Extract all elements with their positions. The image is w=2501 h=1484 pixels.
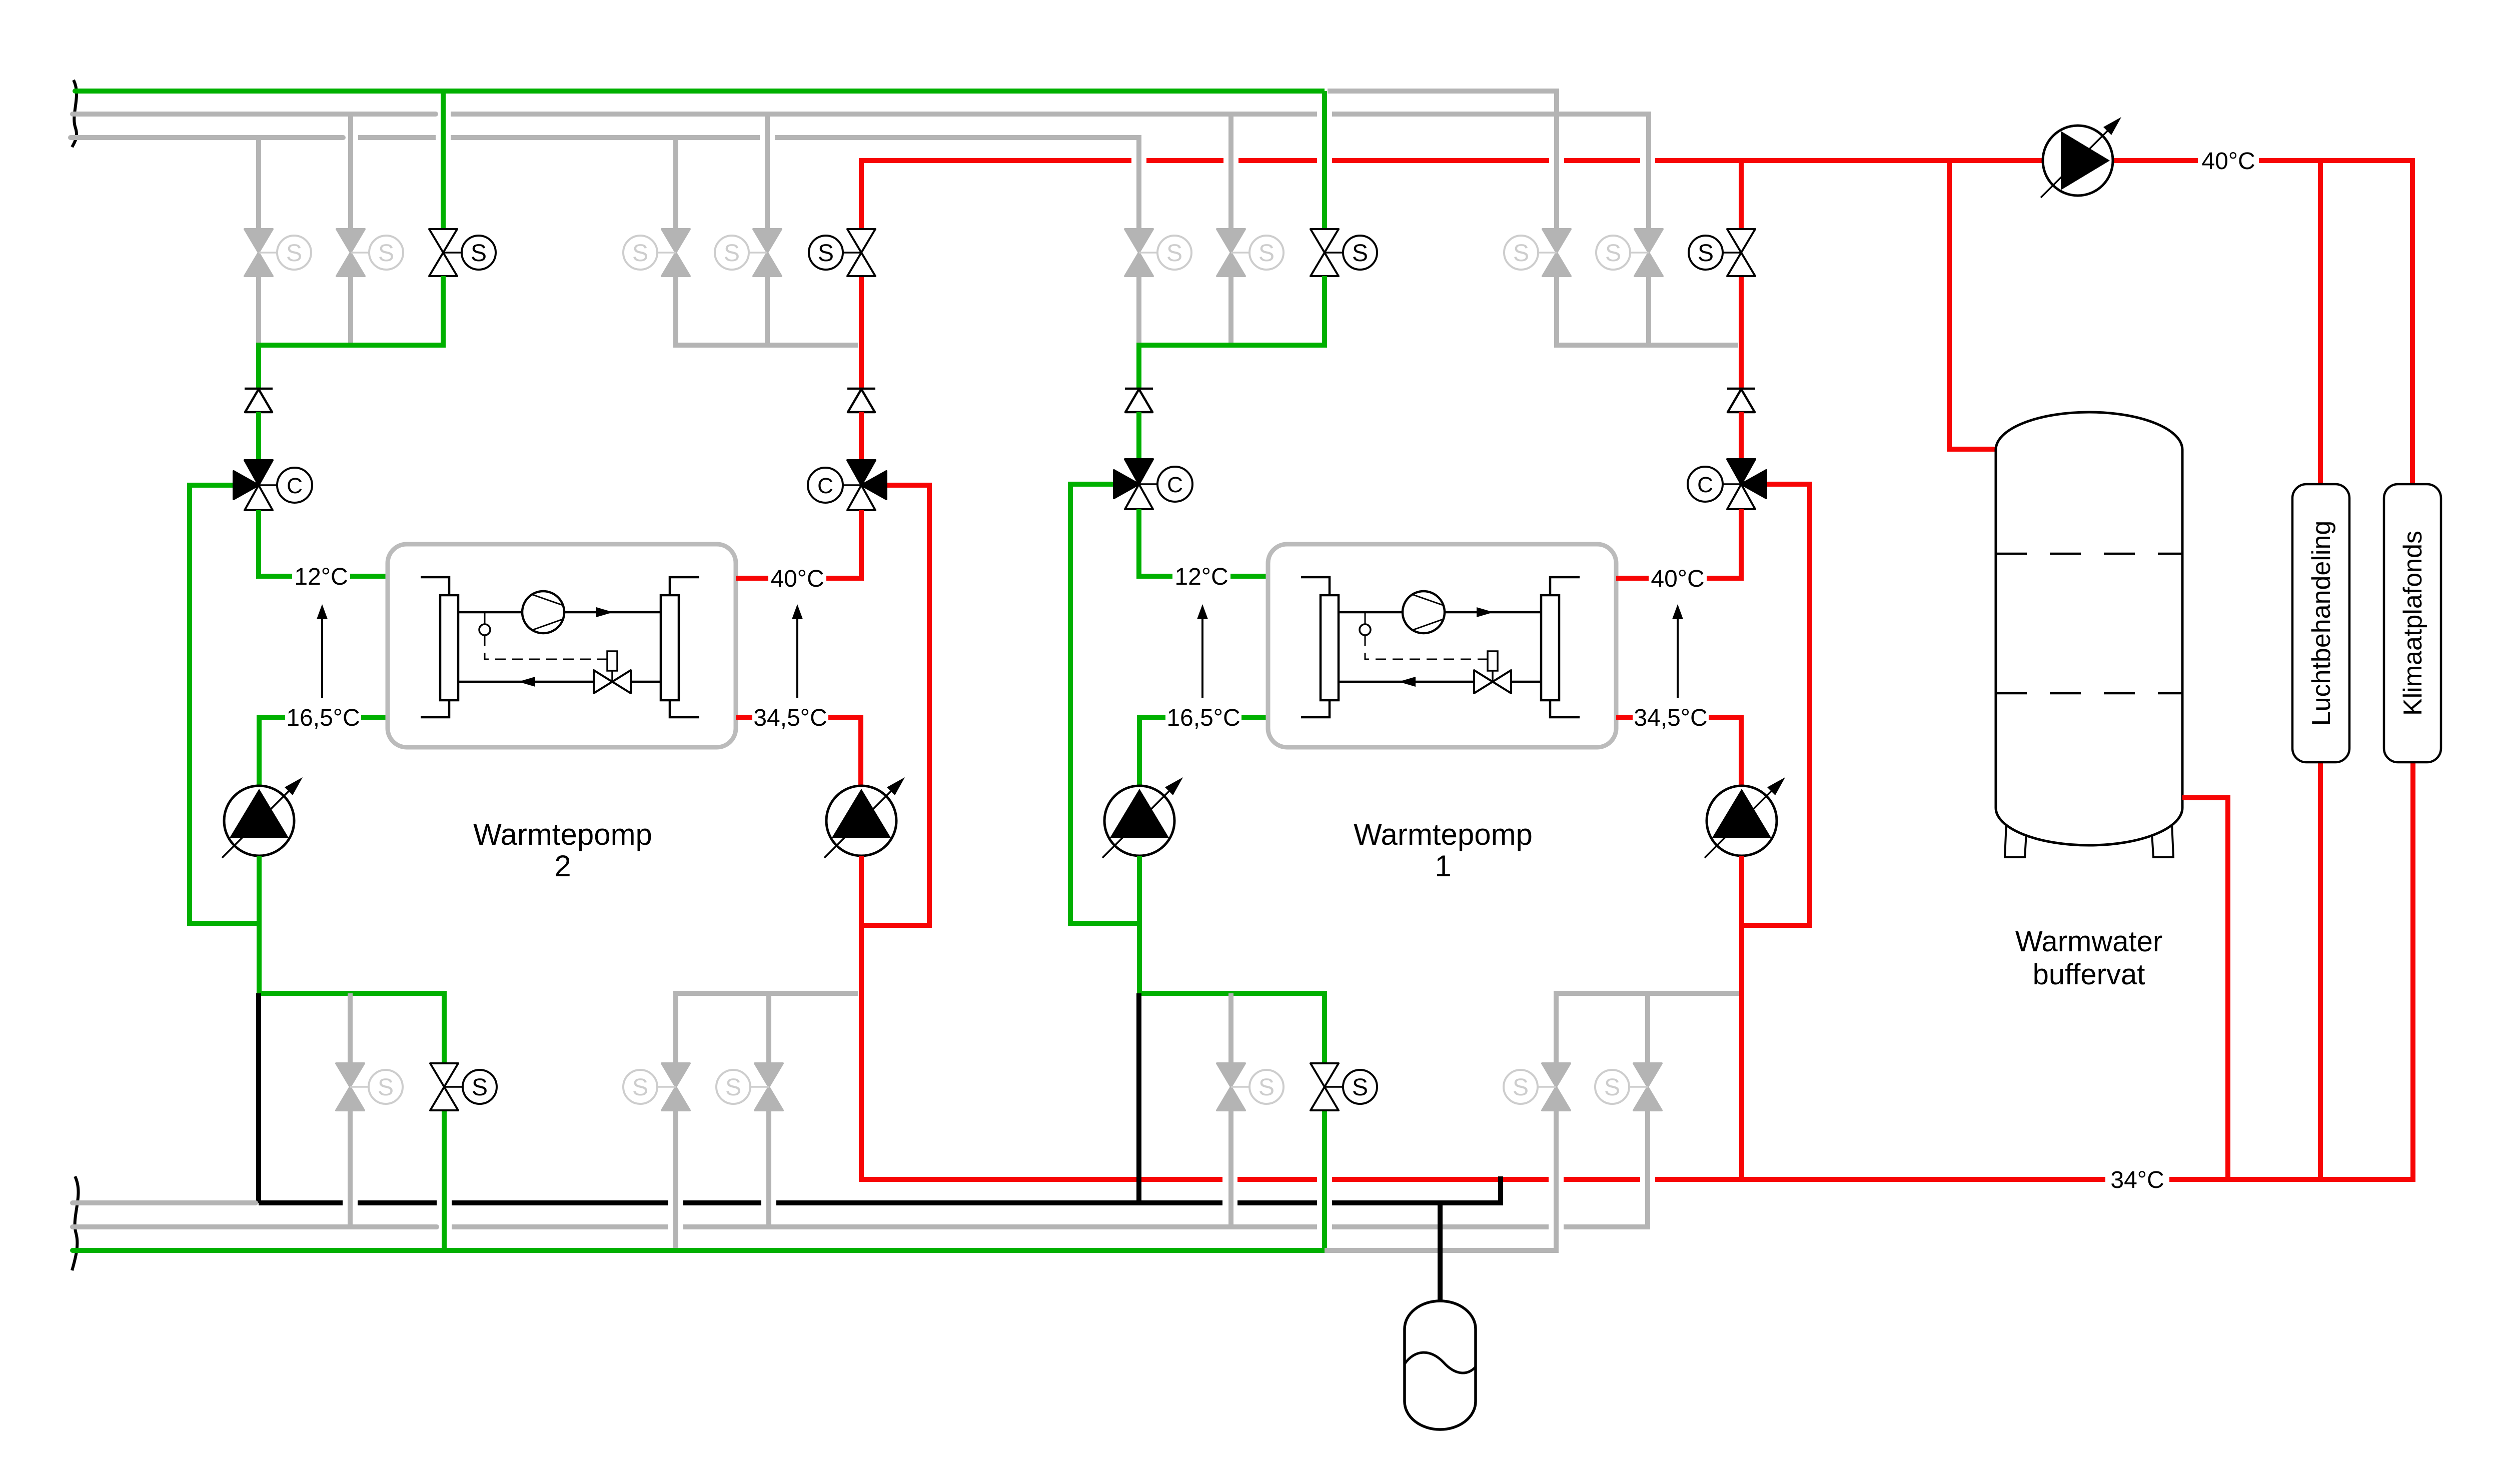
WP2 liquid line with flow arrow (458, 677, 661, 687)
svg-text:Luchtbehandeling: Luchtbehandeling (2307, 521, 2336, 726)
wire: expansion vessel connection (black) (1438, 1203, 1443, 1304)
pump WP1 condenser (variable speed) (1705, 777, 1785, 858)
svg-text:Warmtepomp: Warmtepomp (473, 818, 652, 851)
pump WP2 condenser (variable speed) (824, 777, 905, 858)
wire: bottom gray header 2 (73, 1224, 437, 1229)
svg-text:C: C (817, 474, 833, 498)
wire: WP2 condenser supply 40C (red) (826, 510, 861, 578)
svg-text:S: S (1604, 1074, 1620, 1101)
svg-text:40°C: 40°C (2201, 148, 2255, 175)
pipe break mark bottom left (72, 1176, 79, 1270)
WP2 condenser heat exchanger (661, 577, 699, 717)
pipe break mark top left (72, 80, 77, 147)
WP2 evaporator heat exchanger (421, 577, 458, 717)
wire: WP2 condenser riser (red active) (859, 276, 864, 389)
valve S WP1 bottom-right branch 2 (gray closed) (1595, 1063, 1662, 1110)
wire: WP2 condenser mixing bypass (red) (861, 485, 929, 925)
svg-text:34°C: 34°C (2110, 1167, 2164, 1193)
3-way mixing valve C WP1 condenser (1688, 459, 1766, 509)
wire: bottom return header 34C (red) (1237, 1177, 1317, 1182)
wire: WP2 condenser group connector (gray) (676, 276, 858, 345)
WP1 discharge line with flow arrow (1339, 607, 1541, 617)
wire: WP1 bottom branch 3 (green active) (1322, 1110, 1327, 1250)
arrow up WP1 right (1672, 604, 1683, 698)
WP1 expansion valve with actuator (1474, 651, 1511, 693)
wire: WP2 bottom branch 3 (green active) (442, 1110, 447, 1250)
wire: WP1 condenser riser (red active) (1739, 161, 1744, 229)
valve S WP2 evaporator branch 2 (gray closed) (337, 229, 403, 276)
WP1 evaporator heat exchanger (1301, 577, 1339, 717)
wire: bottom source return header (black) (259, 1200, 343, 1205)
svg-text:S: S (1605, 240, 1621, 267)
wire: top gray header 3 (71, 135, 343, 140)
wire: WP1 evaporator branch 3 (green active) (1322, 91, 1327, 229)
heat pump unit WP1 cabinet (1268, 544, 1616, 747)
svg-text:C: C (1167, 473, 1183, 497)
svg-text:S: S (471, 240, 487, 267)
check valve WP1 evaporator (1125, 389, 1153, 412)
wire: top source supply header continuation (gray, to WP1 condenser group branch 1) (1328, 91, 1557, 229)
wire: WP1 condenser mixing bypass (red) (1742, 484, 1810, 925)
svg-text:buffervat: buffervat (2033, 958, 2145, 991)
svg-text:S: S (1352, 1074, 1368, 1101)
svg-text:C: C (1697, 473, 1713, 497)
svg-text:1: 1 (1435, 849, 1451, 883)
wire: WP2 condenser branch 1 (gray) (673, 138, 678, 229)
wire: WP1 condenser branch 2 lower (gray) (1646, 276, 1651, 345)
arrow up WP1 left (1197, 604, 1208, 698)
svg-text:S: S (725, 1074, 741, 1101)
wire: bottom source supply header (green active part) (73, 1248, 1325, 1253)
wire: WP1 bottom-right branch 2 upper (gray) (1645, 993, 1650, 1063)
component box Luchtbehandeling (2292, 484, 2349, 762)
wire: WP2 evaporator branch 3 (green active) (441, 91, 446, 229)
WP1 sensor bulb and control line (1360, 612, 1488, 659)
wire: WP2 condenser pump outlet to bottom header (red) (861, 856, 1222, 1179)
svg-text:12°C: 12°C (1174, 564, 1228, 590)
wire: WP2 evaporator branch 1 (gray) (256, 138, 261, 229)
svg-text:Klimaatplafonds: Klimaatplafonds (2398, 531, 2427, 716)
wire: hot supply header 40C (red) (861, 161, 1131, 229)
valve S WP1 evaporator branch 1 (gray closed) (1125, 229, 1191, 276)
wire: bottom header 3 continuation (gray) (1325, 1110, 1556, 1250)
svg-text:34,5°C: 34,5°C (753, 705, 827, 731)
svg-text:S: S (472, 1074, 488, 1101)
3-way mixing valve C WP2 condenser (808, 460, 886, 510)
wire: bottom header 1 left part (gray) (73, 1200, 256, 1205)
WP2 compressor (522, 591, 564, 633)
wire: WP1 check valve to mixing valve (green) (1136, 412, 1141, 459)
heat pump unit WP2 cabinet (388, 544, 736, 747)
wire: WP1 evaporator return 16.5C (green) (1241, 715, 1268, 720)
valve S WP1 bottom branch 3 (open) (1311, 1063, 1377, 1110)
pump WP2 evaporator (variable speed) (222, 777, 303, 858)
svg-text:C: C (287, 474, 303, 498)
wire: WP1 condenser group connector (gray) (1557, 276, 1738, 345)
wire: WP1 evaporator group connector (green) (1139, 276, 1325, 389)
valve S WP2 bottom-right branch 1 (gray closed) (623, 1063, 690, 1110)
svg-text:2: 2 (554, 849, 571, 883)
WP2 sensor bulb and control line (479, 612, 607, 659)
component box Klimaatplafonds (2384, 484, 2441, 762)
arrow up WP2 right (792, 604, 803, 698)
svg-text:12°C: 12°C (294, 564, 348, 590)
wire: WP1 condenser return 34.5C (red) (1616, 715, 1633, 720)
wire: Luchtbehandeling return drop (red) (2318, 760, 2323, 1179)
valve S WP2 condenser branch 1 (gray closed) (623, 229, 690, 276)
wire: WP1 bottom branch 2 (gray) (1228, 993, 1233, 1063)
3-way mixing valve C WP1 evaporator (1114, 459, 1192, 509)
wire: WP2 bottom-right branch 2 (gray) (766, 993, 771, 1063)
svg-text:S: S (1259, 1074, 1275, 1101)
wire: WP1 evaporator supply 12C (green) (1139, 509, 1172, 576)
wire: WP2 condenser branch 2 (gray) (765, 114, 770, 229)
svg-text:16,5°C: 16,5°C (1166, 705, 1240, 731)
wire: WP2 condenser check valve to mixing valve (red) (859, 412, 864, 460)
wire: WP1 condenser check valve to mixing valve (red) (1739, 412, 1744, 459)
expansion vessel (1405, 1301, 1476, 1429)
svg-text:S: S (632, 1074, 648, 1101)
valve S WP2 condenser riser (open) (809, 229, 875, 276)
valve S WP1 bottom-right branch 1 (gray closed) (1504, 1063, 1570, 1110)
svg-text:S: S (378, 1074, 394, 1101)
check valve WP2 condenser (847, 389, 875, 412)
valve S WP1 evaporator branch 2 (gray closed) (1217, 229, 1284, 276)
wire: buffer tank feed from top header (red) (1949, 161, 1996, 449)
wire: WP2 bottom-left group connector (green) (259, 993, 444, 1063)
svg-text:S: S (1259, 240, 1275, 267)
svg-text:34,5°C: 34,5°C (1634, 705, 1707, 731)
svg-text:Warmtepomp: Warmtepomp (1354, 818, 1533, 851)
valve S WP2 evaporator branch 1 (gray closed) (245, 229, 311, 276)
wire: WP2 evaporator supply 12C (green) (259, 510, 292, 576)
valve S WP1 condenser branch 1 (gray closed) (1504, 229, 1571, 276)
check valve WP2 evaporator (245, 389, 273, 412)
svg-text:16,5°C: 16,5°C (286, 705, 360, 731)
wire: WP2 check valve to mixing valve (green) (256, 412, 261, 460)
wire: WP2 source return drop (black) (256, 993, 261, 1203)
wire: Luchtbehandeling supply drop (red) (2318, 161, 2323, 486)
svg-text:40°C: 40°C (1651, 566, 1704, 592)
arrow up WP2 left (317, 604, 328, 698)
svg-text:Warmwater: Warmwater (2015, 925, 2162, 958)
wire: buffer tank outlet to bottom header (red) (2182, 798, 2228, 1179)
wire: WP2 evaporator group connector (green) (259, 276, 443, 389)
svg-text:S: S (1513, 240, 1529, 267)
svg-text:40°C: 40°C (770, 566, 824, 592)
wire: WP2 bottom-right branch 1 (gray) (673, 1110, 678, 1250)
wire: WP1 source return drop (black) (1136, 993, 1141, 1203)
valve S WP1 condenser branch 2 (gray closed) (1596, 229, 1663, 276)
wire: WP2 evaporator mixing bypass (green) (190, 485, 259, 923)
wire: WP1 evaporator branch 1 lower (gray) (1136, 276, 1141, 345)
svg-text:S: S (818, 240, 834, 267)
wire: WP2 evaporator pump outlet down (green) (257, 856, 262, 993)
WP1 condenser heat exchanger (1541, 577, 1580, 717)
pump distribution (top right, variable speed) (2041, 117, 2121, 198)
wire: top source supply header (green, active) (75, 89, 436, 94)
check valve WP1 condenser (1727, 389, 1755, 412)
valve S WP2 evaporator branch 3 (open) (429, 229, 496, 276)
valve S WP2 condenser branch 2 (gray closed) (715, 229, 781, 276)
wire: WP2 bottom-right group connector (gray) (676, 993, 858, 1063)
valve S WP2 bottom-right branch 2 (gray closed) (716, 1063, 783, 1110)
wire: WP1 condenser pump outlet to bottom header (red) (1739, 856, 1744, 1179)
wire: WP1 evaporator pump outlet down (green) (1137, 856, 1142, 993)
wire: WP1 evaporator branch 2 (gray) (1228, 114, 1233, 229)
svg-text:S: S (1698, 240, 1714, 267)
svg-text:S: S (1352, 240, 1368, 267)
valve S WP1 bottom branch 2 (gray closed) (1217, 1063, 1284, 1110)
WP1 liquid line with flow arrow (1339, 677, 1541, 687)
WP2 expansion valve with actuator (594, 651, 631, 693)
3-way mixing valve C WP2 evaporator (234, 460, 312, 510)
valve S WP2 bottom branch 3 (open) (430, 1063, 497, 1110)
wire: WP2 bottom branch 2 (gray) (348, 993, 353, 1063)
buffer tank (Warmwater buffervat) (1996, 412, 2182, 857)
wire: WP1 evaporator mixing bypass (green) (1070, 484, 1139, 923)
svg-text:S: S (286, 240, 302, 267)
wire: WP2 condenser return 34.5C (red) (736, 715, 752, 720)
svg-text:S: S (1166, 240, 1182, 267)
WP1 compressor (1403, 591, 1445, 633)
WP2 discharge line with flow arrow (458, 607, 661, 617)
wire: top gray header 2 (73, 112, 436, 117)
svg-text:S: S (724, 240, 740, 267)
valve S WP1 condenser riser (open) (1689, 229, 1755, 276)
svg-text:S: S (1513, 1074, 1529, 1101)
wire: WP2 evaporator return 16.5C (green) (361, 715, 388, 720)
wire: WP2 evaporator branch 2 (gray) (348, 114, 353, 229)
pump WP1 evaporator (variable speed) (1102, 777, 1183, 858)
wire: WP1 bottom-right group connector (gray) (1556, 993, 1739, 1063)
wire: WP1 condenser supply 40C (red) (1707, 509, 1741, 578)
svg-text:S: S (632, 240, 648, 267)
wire: WP1 bottom-left group connector (green) (1139, 993, 1325, 1063)
valve S WP2 bottom branch 2 (gray closed) (336, 1063, 403, 1110)
valve S WP1 evaporator branch 3 (open) (1311, 229, 1377, 276)
svg-text:S: S (378, 240, 394, 267)
